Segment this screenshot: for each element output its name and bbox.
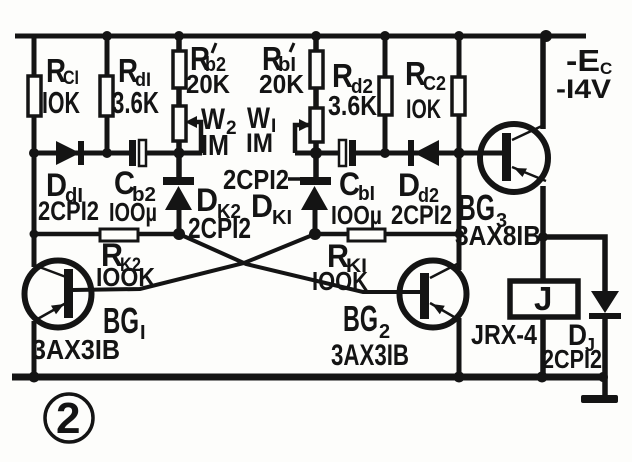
node bottom rail junctions bbox=[29, 372, 609, 383]
svg-text:BG: BG bbox=[343, 298, 378, 339]
wire Rd2 column bbox=[383, 36, 388, 153]
svg-text:IOK: IOK bbox=[406, 94, 441, 124]
svg-text:C2: C2 bbox=[423, 73, 446, 95]
node diode row junctions bbox=[29, 147, 465, 159]
potentiometer W1 bbox=[246, 102, 323, 158]
svg-text:2CPI2: 2CPI2 bbox=[391, 200, 452, 230]
potentiometer W2 bbox=[173, 103, 237, 162]
svg-text:KI: KI bbox=[272, 207, 292, 229]
svg-text:3AX3IB: 3AX3IB bbox=[32, 334, 120, 365]
svg-text:C: C bbox=[339, 166, 360, 202]
wire BG3 column bbox=[540, 36, 546, 281]
wire Rd1 column bbox=[105, 36, 110, 153]
relay J bbox=[471, 280, 578, 377]
diode DJ bbox=[542, 291, 621, 396]
svg-text:IM: IM bbox=[246, 128, 273, 158]
resistor Rb1' bbox=[259, 40, 323, 99]
wire right diode row bbox=[295, 151, 502, 156]
svg-text:-I4V: -I4V bbox=[556, 74, 611, 104]
transistor BG2 bbox=[331, 261, 467, 373]
node top rail junctions bbox=[102, 30, 552, 42]
svg-text:R: R bbox=[332, 57, 353, 94]
svg-text:2CPI2: 2CPI2 bbox=[38, 196, 99, 226]
diode DK2 bbox=[163, 177, 251, 245]
figure number 2 bbox=[45, 394, 93, 443]
svg-text:-E: -E bbox=[566, 43, 600, 78]
resistor Rd1 bbox=[100, 52, 159, 120]
svg-text:2CPI2: 2CPI2 bbox=[542, 344, 602, 374]
svg-text:IOOµ: IOOµ bbox=[109, 197, 157, 227]
wire cross coupling A bbox=[179, 234, 420, 292]
svg-text:J: J bbox=[534, 280, 552, 317]
wire RC2 column bbox=[457, 36, 462, 377]
node middle row junctions bbox=[30, 228, 549, 242]
transistor BG1 bbox=[25, 261, 146, 366]
transistor BG3 bbox=[455, 124, 548, 251]
resistor RK2 bbox=[34, 229, 179, 292]
svg-text:I: I bbox=[140, 322, 146, 344]
capacitor Cb2 bbox=[109, 140, 157, 227]
svg-text:20K: 20K bbox=[186, 69, 230, 99]
wire cross coupling B bbox=[73, 234, 315, 290]
wire top rail bbox=[15, 34, 586, 39]
svg-text:JRX-4: JRX-4 bbox=[471, 319, 537, 350]
wire Rb2 column bbox=[176, 36, 182, 179]
svg-text:3.6K: 3.6K bbox=[112, 85, 159, 120]
wire left diode row bbox=[34, 151, 202, 156]
svg-text:IOK: IOK bbox=[42, 85, 80, 120]
wire Rb1 column bbox=[313, 36, 319, 179]
wire DJ branch bbox=[543, 237, 605, 291]
ground bbox=[581, 395, 618, 403]
resistor Rb2' bbox=[173, 40, 230, 99]
power label -EC -14V bbox=[556, 43, 612, 104]
svg-text:IOOµ: IOOµ bbox=[331, 200, 382, 230]
resistor RC1 bbox=[28, 52, 80, 120]
diode DK1 bbox=[223, 164, 331, 234]
diode Dd2 bbox=[391, 140, 452, 230]
svg-text:3AX3IB: 3AX3IB bbox=[331, 339, 409, 372]
resistor RK1 bbox=[312, 229, 459, 296]
svg-text:D: D bbox=[398, 167, 420, 203]
svg-text:3AX8IB: 3AX8IB bbox=[455, 220, 541, 251]
svg-text:20K: 20K bbox=[259, 69, 304, 99]
svg-text:3.6K: 3.6K bbox=[328, 90, 377, 121]
capacitor Cb1 bbox=[331, 140, 382, 230]
svg-text:D: D bbox=[251, 188, 273, 224]
svg-text:IM: IM bbox=[201, 130, 229, 162]
diode Dd1 bbox=[38, 141, 99, 226]
wire bottom rail bbox=[12, 374, 605, 381]
svg-text:2: 2 bbox=[56, 394, 80, 443]
wire RC1 column bbox=[32, 36, 37, 377]
resistor Rd2 bbox=[328, 57, 392, 121]
resistor RC2 bbox=[405, 55, 465, 124]
